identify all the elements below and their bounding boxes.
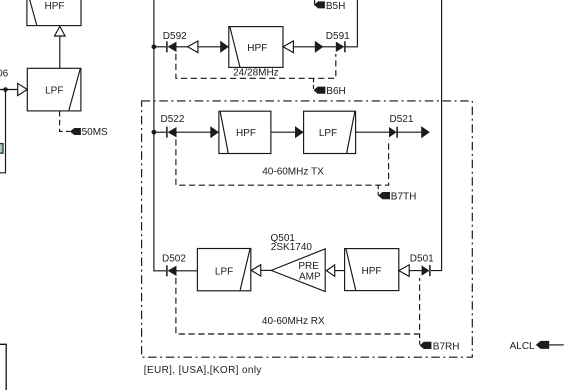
svg-text:B7RH: B7RH [433,341,460,352]
wire [345,0,358,47]
wire [59,36,61,68]
junction node [152,130,157,135]
junction dot [3,87,8,92]
filter block LPF (top-left) [27,68,81,111]
amplifier direction triangle (open, right) [18,83,28,95]
signal flag with wire ALCL [536,341,564,349]
open triangle (left) [251,265,260,276]
svg-text:D591: D591 [326,31,350,42]
svg-text:24/28MHz: 24/28MHz [233,68,279,79]
svg-text:PRE: PRE [298,261,319,272]
svg-text:HPF: HPF [247,43,267,54]
svg-text:LPF: LPF [45,85,63,96]
svg-text:D521: D521 [390,114,414,125]
svg-text:2SK1740: 2SK1740 [271,242,313,253]
svg-text:LPF: LPF [215,266,233,277]
wire [0,89,18,91]
svg-text:D502: D502 [162,254,186,265]
svg-text:LPF: LPF [319,128,337,139]
diode D592 [163,31,187,52]
box corner (bottom-left, cut off) [0,344,6,390]
diode D591 [326,31,350,52]
wire [154,131,166,133]
control line (dashed) D592 to D591 [176,54,336,78]
wire [177,46,188,48]
svg-text:B5H: B5H [326,1,345,12]
open triangle (left) [326,265,334,276]
open triangle (left) [399,265,409,277]
diode D502 [162,254,186,277]
signal direction arrow (up, open) [55,26,66,36]
svg-text:AMP: AMP [299,272,321,283]
svg-text:D522: D522 [161,114,185,125]
svg-text:B6H: B6H [326,86,345,97]
signal flag B7TH [378,185,416,202]
svg-text:HPF: HPF [236,128,256,139]
wire [356,131,389,133]
wire with arrow [198,41,229,53]
filter block LPF TX [304,111,356,153]
svg-text:B7TH: B7TH [391,192,417,203]
svg-text:40-60MHz TX: 40-60MHz TX [262,166,324,177]
wire (antenna bus, left) [154,0,166,271]
wire (antenna bus, right) [431,0,442,271]
signal flag B7RH [420,334,460,352]
signal flag B6H [314,78,346,97]
svg-text:[EUR], [USA],[KOR] only: [EUR], [USA],[KOR] only [144,365,262,376]
wire with arrow [271,126,304,138]
filter block HPF (top-left, cut off at top) [27,0,81,26]
wire [177,270,198,272]
svg-text:40-60MHz RX: 40-60MHz RX [262,316,325,327]
svg-text:HPF: HPF [362,266,382,277]
svg-text:ALCL: ALCL [510,341,535,352]
wire with arrow [293,41,335,53]
svg-text:D501: D501 [410,254,434,265]
control line (dashed) D522 to D521 [176,140,389,186]
filter block LPF RX [197,249,250,291]
signal flag B5H [314,0,345,12]
svg-text:50MS: 50MS [82,127,108,138]
connector pad (left edge, teal) [0,144,3,154]
junction node [152,44,157,49]
amplifier PRE AMP Q501 [271,249,325,292]
control line (dashed) D502 to D501 [176,278,420,334]
wire [261,269,271,271]
diode D501 [410,254,434,277]
filter block HPF 24/28MHz [229,27,283,68]
filter block HPF TX [219,111,271,153]
diode D521 [389,114,414,138]
wire [335,270,345,272]
svg-text:HPF: HPF [45,1,65,12]
filter block HPF RX [345,249,399,291]
dashed wire [60,111,70,131]
open triangle (left) [283,41,293,53]
wire with arrow [177,126,219,138]
wire with arrow (to antenna bus, gap) [397,126,430,138]
wire [409,270,421,272]
svg-text:06: 06 [0,68,9,79]
wire [154,46,166,48]
diode D522 [161,114,185,138]
svg-text:D592: D592 [163,31,187,42]
region box [EUR][USA][KOR] (dash-dot) [142,101,473,357]
wire [0,90,6,173]
open triangle (left) [188,41,198,53]
signal flag 50MS [70,127,108,138]
